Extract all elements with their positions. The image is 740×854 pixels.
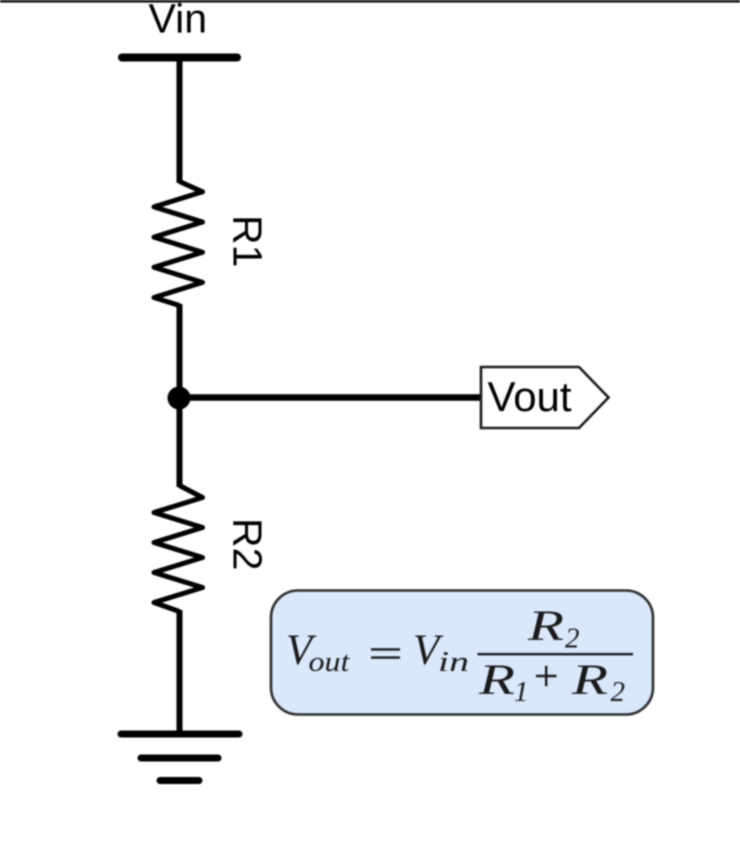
- svg-text:Vin: Vin: [149, 0, 208, 42]
- svg-text:1: 1: [514, 676, 529, 708]
- ground bar 3: [160, 777, 199, 784]
- svg-text:Vout: Vout: [488, 373, 572, 420]
- resistor R2: [154, 486, 203, 612]
- resistor R1: [154, 182, 203, 306]
- wire R2 to ground: [177, 610, 183, 734]
- formula fraction bar: [478, 653, 634, 655]
- ground bar 2: [141, 755, 218, 762]
- formula box: [271, 591, 653, 715]
- ground bar 1: [121, 731, 239, 738]
- node junction dot: [168, 387, 191, 410]
- top screenshot edge bar: [0, 0, 740, 3]
- wire Vin rail to R1: [177, 58, 183, 184]
- wire R1 to node: [177, 304, 183, 398]
- power rail Vin: [122, 54, 237, 62]
- svg-text:2: 2: [611, 676, 626, 708]
- svg-text:R: R: [571, 657, 608, 704]
- svg-text:2: 2: [565, 623, 580, 655]
- svg-text:out: out: [309, 646, 351, 678]
- svg-text:in: in: [438, 646, 469, 678]
- wire node to Vout flag: [179, 394, 482, 401]
- svg-text:R2: R2: [225, 518, 271, 570]
- formula plus sign: [536, 675, 557, 677]
- wire node to R2: [177, 398, 183, 488]
- svg-text:R: R: [478, 657, 515, 704]
- node flag Vout: [481, 367, 609, 428]
- svg-text:R1: R1: [225, 215, 271, 267]
- formula equals sign: [371, 648, 400, 650]
- svg-text:R: R: [527, 603, 564, 650]
